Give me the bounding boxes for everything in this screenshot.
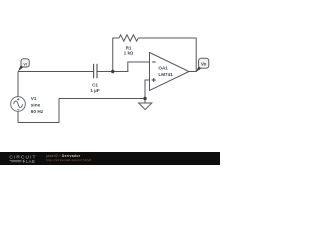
wire feedback top right and down to output <box>138 38 196 72</box>
svg-text:R1: R1 <box>126 45 132 50</box>
node VI label <box>21 59 29 67</box>
svg-text:VI: VI <box>23 62 26 66</box>
svg-text:LAB: LAB <box>26 159 35 164</box>
source V1 sine wave <box>14 101 23 108</box>
wire input from V1 top corner to capacitor <box>18 71 94 73</box>
svg-text:C1: C1 <box>92 83 98 88</box>
wire op-amp plus input down to ground junction <box>145 80 150 99</box>
source V1 plus sign <box>17 98 19 100</box>
footer bar <box>0 152 220 165</box>
op-amp OA1 triangle <box>150 53 190 91</box>
wire jog up to op-amp minus input <box>128 62 150 72</box>
node Vo label tail <box>196 66 202 72</box>
op-amp minus sign <box>152 61 155 63</box>
source V1 labels <box>31 96 44 114</box>
wire feedback left vertical <box>113 38 119 72</box>
svg-text:OA1: OA1 <box>158 66 168 71</box>
svg-text:http://circuitlab.com/c/74fy8: http://circuitlab.com/c/74fy8 <box>46 158 91 162</box>
svg-text:LM741: LM741 <box>158 72 173 77</box>
ground <box>139 103 152 110</box>
wire capacitor to jog <box>97 71 128 73</box>
capacitor C1 labels <box>90 83 99 93</box>
capacitor C1 plates <box>94 64 97 78</box>
source V1 circle <box>11 97 26 112</box>
wire left step down to V1 bottom <box>18 99 59 123</box>
junction dot at capacitor/feedback node <box>111 70 114 73</box>
svg-text:Vo: Vo <box>201 62 207 67</box>
svg-text:sine: sine <box>31 103 41 108</box>
wire V1 top stem <box>17 72 19 97</box>
op-amp labels <box>158 66 173 77</box>
junction dot at ground node <box>143 97 146 100</box>
resistor R1 zigzag <box>119 35 138 41</box>
svg-text:1 µF: 1 µF <box>90 88 99 93</box>
footer CircuitLab logo trace lines <box>10 160 22 161</box>
footer CircuitLab logo bolt <box>23 159 26 163</box>
svg-text:V1: V1 <box>31 96 37 101</box>
wire bottom horizontal to junction <box>59 98 145 100</box>
svg-text:60 Hz: 60 Hz <box>31 109 44 114</box>
node Vo label <box>199 58 209 68</box>
resistor R1 labels <box>124 45 134 55</box>
wire V1 bottom stem <box>17 111 19 122</box>
source V1 minus sign <box>17 109 19 111</box>
wire op-amp output <box>189 71 197 73</box>
node VI label tail <box>18 65 23 71</box>
ground stem <box>144 99 146 104</box>
svg-text:1 kΩ: 1 kΩ <box>124 51 134 56</box>
op-amp plus sign <box>152 78 156 82</box>
